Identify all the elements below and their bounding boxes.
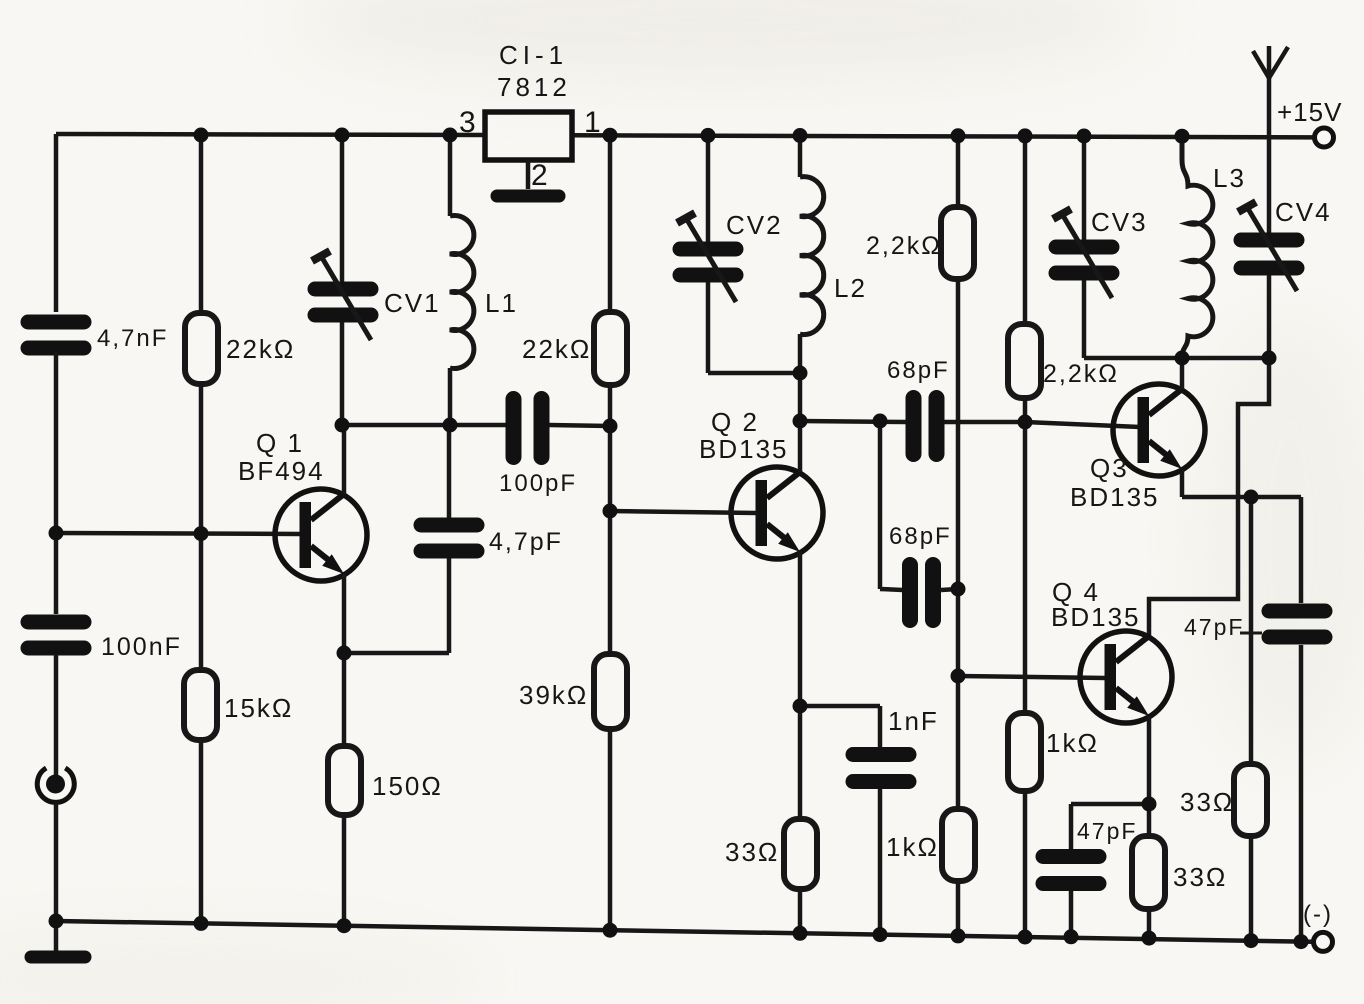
node Q3 base 2,2k xyxy=(1018,415,1033,430)
node top rail L3 xyxy=(1175,129,1190,144)
label 33 ohm Q2 xyxy=(725,837,779,867)
svg-text:4,7nF: 4,7nF xyxy=(97,325,168,352)
svg-text:Q 2: Q 2 xyxy=(711,407,759,437)
node bottom rail 33 Q4 xyxy=(1142,931,1157,946)
svg-text:1kΩ: 1kΩ xyxy=(886,832,939,862)
wire 150 ohm column xyxy=(342,653,347,926)
svg-text:BF494: BF494 xyxy=(238,456,325,486)
node top rail 22k xyxy=(194,128,209,143)
ground stub bottom left xyxy=(54,921,59,951)
wire Q4 collector path xyxy=(1149,358,1269,636)
label CI-1 xyxy=(499,40,568,70)
label +15V xyxy=(1277,97,1342,127)
label BD135 Q2 xyxy=(699,434,789,464)
wire 68pF second branch down xyxy=(878,421,883,589)
svg-text:22kΩ: 22kΩ xyxy=(226,334,295,364)
inductor L1 xyxy=(450,216,474,369)
label 4,7pF xyxy=(489,528,563,556)
label 1k middle xyxy=(1046,728,1099,758)
wire input jack to bottom rail xyxy=(54,803,59,922)
transistor Q3 BD135 xyxy=(1113,384,1205,476)
wire L2 column top (x=800) xyxy=(798,136,803,178)
svg-text:+15V: +15V xyxy=(1277,97,1342,127)
svg-text:100pF: 100pF xyxy=(499,470,577,497)
svg-text:L3: L3 xyxy=(1213,163,1246,193)
wire 68pF second left stub xyxy=(880,589,903,590)
svg-text:BD135: BD135 xyxy=(1070,482,1160,512)
label 33 ohm right xyxy=(1180,787,1234,817)
node bottom rail 1nF xyxy=(873,927,888,942)
resistor 22k (second) xyxy=(594,312,627,385)
wire 1nF column (x=880) xyxy=(878,706,883,935)
capacitor 68pF first xyxy=(914,398,937,454)
label Q4 xyxy=(1052,577,1100,607)
label 7812 xyxy=(497,72,571,102)
node top rail 2,2k second xyxy=(1018,128,1033,143)
resistor 39k xyxy=(594,654,627,729)
wire node row y=425 left xyxy=(342,423,506,428)
label 68pF first xyxy=(887,357,950,384)
node 68pF branch xyxy=(873,414,888,429)
label L1 xyxy=(485,288,518,318)
resistor 2,2k second xyxy=(1008,324,1041,398)
node bottom rail 33 Q2 xyxy=(793,926,808,941)
label 68pF second xyxy=(889,523,952,550)
svg-text:47pF: 47pF xyxy=(1077,818,1137,844)
wire CV1 column (x=342) xyxy=(340,135,345,425)
wire bottom (-) rail xyxy=(56,921,1313,942)
label 150 ohm xyxy=(372,771,443,801)
wire CV4 bottom xyxy=(1267,275,1272,358)
svg-text:47pF: 47pF xyxy=(1184,614,1244,640)
svg-text:Q 1: Q 1 xyxy=(256,428,304,458)
node tank CV4 bottom xyxy=(1262,351,1277,366)
node Q2 collector xyxy=(793,414,808,429)
svg-text:(-): (-) xyxy=(1303,901,1333,928)
inductor L2 xyxy=(800,177,824,335)
wire 2,2k second column (x=1025) xyxy=(1023,136,1028,937)
wire 47pF right column (x=1301) xyxy=(1299,497,1304,942)
svg-text:BD135: BD135 xyxy=(699,434,789,464)
resistor 2,2k first xyxy=(941,207,974,279)
svg-text:BD135: BD135 xyxy=(1051,602,1141,632)
wire 68pF row y=421 left xyxy=(800,421,906,422)
label CV1 xyxy=(384,288,441,318)
capacitor 47pF bottom xyxy=(1043,857,1099,884)
node top rail 2,2k first xyxy=(951,128,966,143)
node L2 bottom CV2 xyxy=(793,366,808,381)
node bottom rail input xyxy=(49,914,64,929)
label CV3 xyxy=(1091,207,1148,237)
label Q1 xyxy=(256,428,304,458)
wire 47pF bottom column (x=1071) xyxy=(1069,804,1074,937)
label BD135 Q4 xyxy=(1051,602,1141,632)
svg-text:7812: 7812 xyxy=(497,72,571,102)
svg-text:2,2kΩ: 2,2kΩ xyxy=(866,232,942,260)
wire 4,7pF column (x=449) xyxy=(447,425,452,653)
node 100pF right xyxy=(603,419,618,434)
node Q1 emitter xyxy=(337,646,352,661)
wire Q4 base row y=676 xyxy=(958,676,1106,678)
node top rail CV1 xyxy=(335,128,350,143)
svg-text:CV3: CV3 xyxy=(1091,207,1148,237)
capacitor CV2 xyxy=(677,213,736,302)
wire node row y=425 right xyxy=(549,425,610,426)
capacitor 4,7pF xyxy=(421,525,477,551)
svg-text:33Ω: 33Ω xyxy=(725,837,779,867)
label 4,7nF xyxy=(97,325,168,352)
terminal +15V xyxy=(1315,128,1334,147)
voltage regulator CI-1 7812 xyxy=(485,112,572,160)
node Q2 base xyxy=(603,504,618,519)
wire 33 ohm Q2 column (x=800) xyxy=(798,706,803,933)
label 47pF bottom xyxy=(1077,818,1137,844)
capacitor 100nF xyxy=(28,622,84,648)
node bottom rail 33 right xyxy=(1244,933,1259,948)
label 2,2k first xyxy=(866,232,942,260)
wire CV2 bottom to L2 xyxy=(708,371,800,376)
svg-text:1kΩ: 1kΩ xyxy=(1046,728,1099,758)
wire antenna feed to CV4 xyxy=(1267,78,1272,233)
svg-text:68pF: 68pF xyxy=(889,523,952,550)
wire Q2 collector xyxy=(798,421,803,472)
wire left column mid xyxy=(54,352,59,614)
wire 33 ohm Q4 column xyxy=(1147,804,1152,938)
capacitor CV1 xyxy=(312,251,371,340)
wire Q3 base xyxy=(1025,422,1140,427)
resistor 1k middle xyxy=(1008,713,1041,791)
wire Q1 collector xyxy=(342,425,347,494)
label L2 xyxy=(834,273,867,303)
svg-text:4,7pF: 4,7pF xyxy=(489,528,563,556)
label 33 ohm Q4 xyxy=(1173,862,1227,892)
wire +15V top rail right segment xyxy=(572,135,1314,137)
svg-text:150Ω: 150Ω xyxy=(372,771,443,801)
label 2,2k second xyxy=(1043,360,1119,388)
wire Q2 base xyxy=(610,511,757,513)
capacitor 1nF xyxy=(853,755,909,782)
wire 33 ohm right column (x=1251) xyxy=(1249,497,1254,941)
svg-text:CV4: CV4 xyxy=(1275,197,1332,227)
wire +15V top rail left segment xyxy=(56,134,485,135)
svg-text:CV1: CV1 xyxy=(384,288,441,318)
inductor L3 with top bend xyxy=(1182,136,1213,358)
wire Q3 emitter row y=497 xyxy=(1182,495,1301,500)
wire Q3 collector xyxy=(1180,357,1185,389)
node 68pF second right xyxy=(951,582,966,597)
pin label 1 xyxy=(584,106,603,139)
wire tank row y=358 xyxy=(1084,356,1269,361)
wire 22k column (x=201) xyxy=(199,135,204,923)
svg-text:15kΩ: 15kΩ xyxy=(224,693,293,723)
wire Q4 emitter xyxy=(1147,716,1152,804)
resistor 150 ohm xyxy=(328,746,361,815)
capacitor 4,7nF xyxy=(28,322,84,348)
resistor 33 ohm Q2 xyxy=(784,819,817,889)
wire 2,2k first column (x=958) xyxy=(956,136,961,936)
wire Q2 emitter xyxy=(798,552,803,706)
pin label 2 xyxy=(531,159,550,192)
wire 68pF second right stub xyxy=(941,589,958,590)
capacitor 68pF second xyxy=(910,565,933,620)
svg-text:CV2: CV2 xyxy=(726,210,783,240)
transistor Q4 BD135 xyxy=(1080,631,1172,723)
label 1k left xyxy=(886,832,939,862)
wire Q1 base xyxy=(56,533,301,534)
wire CV2 column (x=708) xyxy=(706,135,711,373)
label 100nF xyxy=(101,633,182,661)
label L3 xyxy=(1213,163,1246,193)
svg-text:1nF: 1nF xyxy=(888,706,939,736)
label 100pF xyxy=(499,470,577,497)
node Q3 emitter 33 ohm xyxy=(1244,490,1259,505)
resistor 22k (first) xyxy=(185,313,218,384)
antenna symbol xyxy=(1253,46,1288,78)
wire emitter row y=653 xyxy=(344,651,449,656)
label 22k first xyxy=(226,334,295,364)
label 1nF xyxy=(888,706,939,736)
node Q4 base xyxy=(951,669,966,684)
capacitor 100pF xyxy=(514,399,542,457)
node bottom rail 1k left xyxy=(951,928,966,943)
wire Q3 emitter xyxy=(1180,469,1185,497)
wire Q4 emitter row y=804 xyxy=(1071,802,1149,807)
node bottom rail 1k middle xyxy=(1018,930,1033,945)
resistor 33 ohm Q4 xyxy=(1132,836,1165,909)
label Q2 xyxy=(711,407,759,437)
node bottom rail 22k xyxy=(194,916,209,931)
svg-text:22kΩ: 22kΩ xyxy=(522,334,591,364)
resistor 15k xyxy=(184,670,217,740)
node bottom rail 47pF right xyxy=(1294,934,1309,949)
wire left column to input jack xyxy=(54,654,59,776)
resistor 33 ohm right xyxy=(1234,764,1267,836)
node bottom rail 47pF xyxy=(1064,929,1079,944)
label CV2 xyxy=(726,210,783,240)
svg-text:33Ω: 33Ω xyxy=(1180,787,1234,817)
node top rail CV3 xyxy=(1077,129,1092,144)
node top rail L2 xyxy=(793,128,808,143)
wire left column top (x=56) xyxy=(54,134,59,312)
node Q1 base left xyxy=(49,526,64,541)
wire CV3 column (x=1084) xyxy=(1082,136,1087,358)
node tank L3 bottom xyxy=(1175,351,1190,366)
svg-text:L1: L1 xyxy=(485,288,518,318)
terminal (-) xyxy=(1314,932,1333,951)
node top rail 22k second xyxy=(603,128,618,143)
label 15k xyxy=(224,693,293,723)
transistor Q1 BF494 xyxy=(275,489,367,581)
label CV4 xyxy=(1275,197,1332,227)
node Q4 emitter 47pF xyxy=(1142,797,1157,812)
svg-text:100nF: 100nF xyxy=(101,633,182,661)
svg-text:Q3: Q3 xyxy=(1090,453,1129,483)
pin label 3 xyxy=(459,106,478,139)
svg-text:2,2kΩ: 2,2kΩ xyxy=(1043,360,1119,388)
wire Q2 emitter row y=706 xyxy=(800,704,880,709)
node CV1 bottom xyxy=(335,418,350,433)
svg-text:3: 3 xyxy=(459,106,478,139)
wire 68pF row y=422 right xyxy=(944,420,1025,425)
node bottom rail 39k xyxy=(603,923,618,938)
label 39k xyxy=(519,680,588,710)
node top rail CV2 xyxy=(701,128,716,143)
node top rail L1 xyxy=(443,128,458,143)
wire L1 bottom xyxy=(448,368,453,425)
input connector jack xyxy=(37,768,74,802)
label 22k second xyxy=(522,334,591,364)
node L1 bottom xyxy=(443,418,458,433)
transistor Q2 BD135 xyxy=(731,467,823,559)
label 47pF right xyxy=(1184,614,1262,640)
node Q1 base 22k xyxy=(194,526,209,541)
label (-) xyxy=(1303,901,1333,928)
label Q3 xyxy=(1090,453,1129,483)
wire L1 column top (x=450) xyxy=(448,135,453,216)
node Q2 emitter xyxy=(793,699,808,714)
capacitor CV4 xyxy=(1238,202,1297,291)
svg-text:L2: L2 xyxy=(834,273,867,303)
svg-text:2: 2 xyxy=(531,159,550,192)
ground bar symbol xyxy=(31,951,85,964)
label BF494 xyxy=(238,456,325,486)
resistor 1k left xyxy=(942,809,975,881)
capacitor 47pF right xyxy=(1269,611,1325,637)
svg-text:CI-1: CI-1 xyxy=(499,40,568,70)
node bottom rail 150 xyxy=(337,918,352,933)
svg-text:1: 1 xyxy=(584,106,603,139)
ground bar CI-1 pin2 xyxy=(497,190,559,203)
label BD135 Q3 xyxy=(1070,482,1160,512)
svg-text:33Ω: 33Ω xyxy=(1173,862,1227,892)
wire Q1 emitter xyxy=(342,574,347,653)
svg-text:39kΩ: 39kΩ xyxy=(519,680,588,710)
wire L2 bottom xyxy=(798,334,803,421)
capacitor CV3 xyxy=(1053,209,1112,298)
svg-text:68pF: 68pF xyxy=(887,357,950,384)
wire 22k second column (x=610) xyxy=(608,135,613,930)
wire CI-1 pin2 xyxy=(526,160,531,189)
